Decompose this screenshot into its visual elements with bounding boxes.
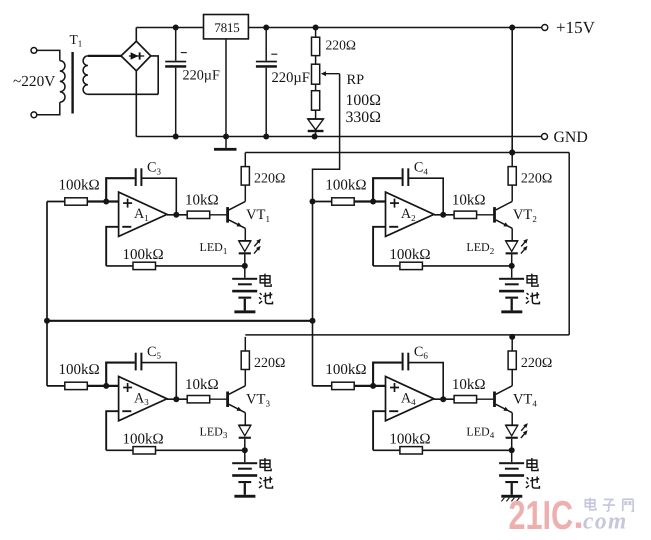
resistor 220ohm (reference chain) (312, 37, 320, 55)
node LED-battery junction (A3) (242, 447, 248, 453)
node collector resistor feed (VT4) (509, 334, 515, 340)
wire reference left rail (46, 202, 48, 386)
ground symbol (214, 137, 237, 151)
wire output to base resistor (A3) (167, 398, 187, 400)
wire secondary bottom (88, 93, 158, 95)
svg-text:7815: 7815 (214, 20, 240, 35)
capacitor 220uF (first) (165, 28, 187, 137)
capacitor C6 (403, 353, 409, 371)
wire feedback bottom row (A2) (373, 265, 512, 267)
wire capacitor to output (A2) (408, 178, 443, 215)
LED2 (506, 241, 518, 266)
label 220ohm (VT1) (254, 172, 285, 187)
label 220uF (first) (183, 68, 220, 84)
label VT3 (246, 392, 270, 409)
wire base (VT2) (477, 214, 494, 216)
label 100ohm (346, 92, 381, 109)
svg-text:100kΩ: 100kΩ (123, 432, 164, 448)
label 220ohm (VT4) (521, 356, 552, 371)
label A2 (401, 206, 416, 223)
label VT4 (513, 392, 537, 409)
transistor VT1 (228, 201, 246, 228)
label 100kohm input (A1) (59, 178, 100, 194)
svg-text:100kΩ: 100kΩ (59, 178, 100, 194)
terminal GND (542, 134, 548, 140)
svg-text:100kΩ: 100kΩ (59, 362, 100, 378)
wire collector rail corner (VT3) (244, 337, 246, 351)
wire base (VT1) (210, 214, 227, 216)
node LED-battery junction (A2) (509, 263, 515, 269)
svg-text:100kΩ: 100kΩ (325, 178, 366, 194)
label battery chi (A1) (259, 292, 273, 304)
LED4 light arrows (521, 423, 528, 438)
transistor VT3 (228, 386, 246, 413)
regulator U1 7815 box (204, 15, 249, 39)
transformer T1 core (71, 52, 73, 114)
capacitor C5 (136, 353, 142, 371)
label C6 (414, 344, 428, 361)
wire feedback bottom row (A3) (106, 449, 245, 451)
transistor VT4 (495, 386, 513, 413)
node 7815 ground (223, 134, 229, 140)
label 100kohm feedback (A1) (123, 247, 164, 263)
svg-text:220Ω: 220Ω (254, 356, 285, 371)
wire bridge - output down (135, 71, 137, 137)
wire capacitor to output (A1) (141, 178, 176, 215)
svg-text:10kΩ: 10kΩ (452, 193, 486, 209)
wire GND rail (136, 136, 541, 138)
label +15V (556, 18, 596, 37)
node inverting input branch (A1) (103, 199, 109, 205)
svg-text:100kΩ: 100kΩ (389, 432, 430, 448)
node op-amp output (A2) (440, 212, 446, 218)
node cap2 top (263, 25, 269, 31)
node cap1 bottom (173, 134, 179, 140)
resistor feedback 100k (A4) (400, 447, 423, 454)
wire resistor to op-amp + input (A3) (87, 385, 118, 387)
capacitor C4 (403, 168, 409, 186)
node cap2 bottom (263, 134, 269, 140)
wire feedback bottom row (A1) (106, 265, 245, 267)
node op-amp output (A4) (440, 396, 446, 402)
label battery dian (A4) (527, 458, 538, 471)
resistor 220 ohm collector (VT2) (508, 167, 516, 186)
svg-text:10kΩ: 10kΩ (185, 193, 219, 209)
svg-text:100kΩ: 100kΩ (325, 362, 366, 378)
label battery chi (A4) (526, 477, 540, 489)
resistor R input 100k (block A1) (65, 198, 88, 205)
label battery dian (A2) (527, 274, 538, 287)
label VT2 (513, 207, 537, 224)
wire emitter (VT1) (244, 228, 246, 241)
LED1 (239, 241, 251, 266)
wire chain top (315, 28, 317, 38)
resistor R input 100k (block A4) (332, 382, 355, 389)
capacitor 220uF (second) (256, 28, 277, 137)
wire feedback branch up (A4) (373, 363, 402, 386)
wire resistor to op-amp + input (A1) (87, 200, 118, 202)
wire collector resistor feed (VT4) (511, 337, 513, 351)
node inverting input branch (A4) (370, 383, 376, 389)
svg-text:220µF: 220µF (183, 68, 220, 84)
LED2 light arrows (521, 239, 528, 254)
label LED2 (466, 240, 494, 256)
node inverting input branch (A2) (370, 199, 376, 205)
wire collector (VT4) (511, 370, 513, 386)
bridge rectifier internal diode (129, 52, 144, 59)
label C4 (414, 160, 428, 177)
label battery chi (A2) (526, 292, 540, 304)
resistor R input 100k (block A2) (332, 198, 355, 205)
svg-text:10kΩ: 10kΩ (452, 377, 486, 393)
wire collector rail (upper) (245, 152, 569, 154)
label 330ohm (346, 109, 381, 126)
wire secondary top to bridge (88, 55, 121, 57)
wire collector resistor feed (VT2) (511, 153, 513, 167)
wire feedback branch up (A3) (106, 363, 135, 386)
wire inverting input branch (A1) (106, 227, 118, 266)
label battery chi (A3) (259, 477, 273, 489)
bridge rectifier (121, 41, 151, 71)
label 220ohm (chain) (326, 37, 357, 52)
wire reference mid vertical (312, 202, 314, 386)
svg-text:com: com (583, 509, 628, 535)
label 220ohm (VT2) (521, 172, 552, 187)
wire collector (VT3) (244, 370, 246, 386)
label 10kohm (A3) (185, 377, 219, 393)
wire output to base resistor (A4) (434, 398, 454, 400)
battery (block A4) (499, 450, 524, 501)
node LED-battery junction (A4) (509, 447, 515, 453)
resistor 220 ohm collector (VT4) (508, 351, 516, 370)
svg-text:100kΩ: 100kΩ (389, 247, 430, 263)
svg-text:10kΩ: 10kΩ (185, 377, 219, 393)
label 100kohm input (A3) (59, 362, 100, 378)
label 100kohm feedback (A2) (389, 247, 430, 263)
potentiometer RP wiper arrow (321, 71, 340, 76)
op-amp A4 (386, 377, 434, 421)
label A1 (134, 206, 149, 223)
wire primary top (37, 50, 60, 60)
LED1 light arrows (254, 239, 261, 254)
wire chain mid3 (315, 110, 317, 119)
wire +15V rail (136, 27, 542, 29)
resistor 10k (A2) (454, 211, 477, 218)
label 100kohm feedback (A3) (123, 432, 164, 448)
node op-amp output (A1) (173, 212, 179, 218)
label 10kohm (A2) (452, 193, 486, 209)
wire right-side vertical (568, 153, 570, 335)
label 7815 (214, 20, 240, 35)
diode D1 (reference chain) (308, 119, 324, 137)
svg-text:220Ω: 220Ω (521, 356, 552, 371)
wire collector (VT1) (244, 185, 246, 201)
svg-text:GND: GND (554, 129, 588, 146)
wire resistor to op-amp + input (A2) (354, 200, 385, 202)
svg-text:RP: RP (347, 72, 365, 88)
resistor feedback 100k (A1) (133, 262, 156, 269)
svg-text:~220V: ~220V (13, 73, 55, 90)
wire inverting input branch (A4) (373, 411, 385, 450)
wire input row (block A4) (313, 385, 332, 387)
svg-text:220Ω: 220Ω (254, 172, 285, 187)
wire primary bottom (37, 102, 60, 115)
wire input row (block A3) (47, 385, 65, 387)
potentiometer RP (312, 64, 320, 84)
node LED-battery junction (A1) (242, 263, 248, 269)
wire feedback bottom row (A4) (373, 449, 512, 451)
label battery dian (A3) (260, 458, 271, 471)
label 220ohm (VT3) (254, 356, 285, 371)
wire base (VT3) (210, 398, 227, 400)
label battery dian (A1) (260, 274, 271, 287)
wire emitter (VT2) (511, 228, 513, 241)
wire collector rail corner (VT1) (244, 153, 246, 167)
label C3 (147, 160, 161, 177)
node reference at A2 input (310, 199, 316, 205)
svg-text:220Ω: 220Ω (326, 37, 357, 52)
battery (block A1) (232, 266, 257, 313)
wire emitter (VT4) (511, 413, 513, 426)
battery (block A3) (232, 450, 257, 497)
node collector resistor feed (VT2) (509, 150, 515, 156)
resistor 330ohm (reference chain) (312, 91, 320, 111)
terminal +15V (542, 25, 548, 31)
wire output to base resistor (A1) (167, 214, 187, 216)
label 220uF (second) (272, 70, 310, 86)
node chain top (313, 25, 319, 31)
svg-text:21IC: 21IC (509, 492, 574, 538)
wire chain mid1 (315, 56, 317, 65)
op-amp A3 (119, 377, 167, 421)
label 100kohm input (A2) (325, 178, 366, 194)
resistor feedback 100k (A2) (400, 262, 423, 269)
node op-amp output (A3) (173, 396, 179, 402)
resistor 220 ohm collector (VT1) (241, 167, 249, 186)
svg-text:+15V: +15V (556, 18, 596, 37)
resistor 220 ohm collector (VT3) (241, 351, 249, 370)
node +15V feed top (509, 25, 515, 31)
node inverting input branch (A3) (103, 383, 109, 389)
wire feedback branch up (A2) (373, 178, 402, 201)
node chain bottom (312, 134, 318, 140)
label LED4 (466, 424, 494, 440)
op-amp A2 (386, 192, 434, 236)
node +15V feed on collector rail (509, 150, 515, 156)
wire inverting input branch (A2) (373, 227, 385, 266)
label A3 (134, 390, 149, 407)
op-amp A1 (119, 192, 167, 236)
transformer T1 secondary winding (83, 56, 88, 94)
wire collector rail (lower) (245, 334, 569, 336)
label 10kohm (A1) (185, 193, 219, 209)
wire 7815 ground pin (225, 39, 227, 137)
svg-text:100Ω: 100Ω (346, 92, 381, 109)
svg-text:330Ω: 330Ω (346, 109, 381, 126)
label RP (347, 72, 365, 88)
label 100kohm input (A4) (325, 362, 366, 378)
label C5 (147, 344, 161, 361)
wire input row (block A1) (47, 201, 65, 203)
label 10kohm (A4) (452, 377, 486, 393)
wire RP wiper feed (313, 74, 340, 202)
label LED3 (200, 424, 228, 440)
LED4 (506, 425, 518, 450)
transformer T1 primary terminal (bottom) (31, 112, 37, 118)
watermark dianzi wang (585, 498, 633, 511)
resistor 10k (A1) (187, 211, 210, 218)
wire +15V feed vertical (511, 28, 513, 153)
wire capacitor to output (A3) (141, 363, 176, 400)
wire feedback branch up (A1) (106, 178, 135, 201)
wire resistor to op-amp + input (A4) (354, 385, 385, 387)
label 100kohm feedback (A4) (389, 432, 430, 448)
label T1 (70, 32, 83, 49)
resistor R input 100k (block A3) (65, 382, 88, 389)
svg-text:220Ω: 220Ω (521, 172, 552, 187)
LED3 (239, 425, 251, 450)
transformer T1 primary winding (60, 61, 65, 103)
label ~220V (13, 73, 55, 90)
wire collector (VT2) (511, 185, 513, 201)
watermark com (583, 509, 628, 535)
resistor feedback 100k (A3) (133, 447, 156, 454)
wire bridge right vertex to secondary bottom (151, 56, 158, 94)
wire inverting input branch (A3) (106, 411, 118, 450)
label VT1 (246, 207, 270, 224)
svg-text:220µF: 220µF (272, 70, 310, 86)
resistor 10k (A4) (454, 396, 477, 403)
node reference mid (310, 318, 316, 324)
svg-text:100kΩ: 100kΩ (123, 247, 164, 263)
node reference left rail (44, 318, 50, 324)
wire base (VT4) (477, 398, 494, 400)
transistor VT2 (495, 201, 513, 228)
resistor 10k (A3) (187, 396, 210, 403)
wire reference cross line (47, 320, 313, 322)
battery (block A2) (499, 266, 524, 313)
capacitor C3 (136, 168, 142, 186)
transformer T1 primary terminal (top) (31, 48, 37, 54)
label GND (554, 129, 588, 146)
wire output to base resistor (A2) (434, 214, 454, 216)
wire bridge + output up (135, 28, 137, 42)
node cap1 top (173, 25, 179, 31)
label A4 (401, 390, 416, 407)
wire capacitor to output (A4) (408, 363, 443, 400)
label LED1 (200, 240, 228, 256)
wire chain mid2 (315, 84, 317, 91)
wire input row (block A2) (313, 201, 332, 203)
watermark 21IC (509, 492, 582, 538)
wire emitter (VT3) (244, 413, 246, 426)
